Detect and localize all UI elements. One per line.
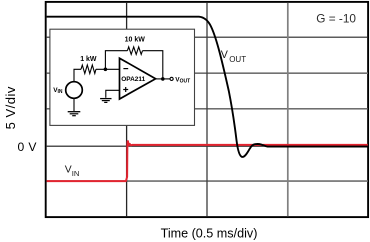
svg-text:G = -10: G = -10: [316, 11, 356, 25]
svg-text:0V: 0V: [18, 140, 38, 154]
svg-text:10 kW: 10 kW: [125, 36, 146, 43]
svg-text:VIN: VIN: [53, 87, 63, 95]
svg-text:5 V/div: 5 V/div: [3, 86, 18, 129]
svg-text:OPA211: OPA211: [121, 76, 145, 83]
svg-text:VOUT: VOUT: [175, 76, 190, 84]
svg-text:Time (0.5 ms/div): Time (0.5 ms/div): [161, 226, 258, 240]
svg-text:1 kW: 1 kW: [80, 56, 97, 63]
